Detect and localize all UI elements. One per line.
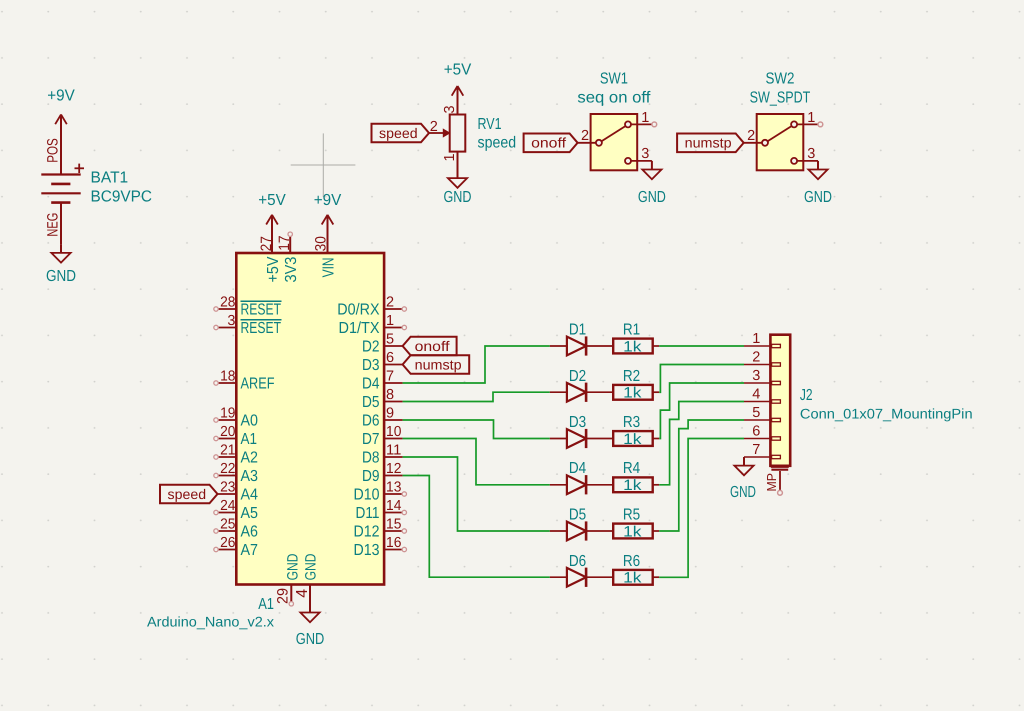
- svg-text:3: 3: [641, 146, 649, 162]
- svg-text:R1: R1: [623, 322, 640, 339]
- svg-text:D3: D3: [569, 414, 586, 431]
- svg-text:D5: D5: [362, 394, 380, 411]
- svg-text:Conn_01x07_MountingPin: Conn_01x07_MountingPin: [800, 405, 973, 421]
- wire Arduino D8 to diode D5: [403, 457, 550, 531]
- svg-text:1: 1: [386, 313, 394, 329]
- svg-text:30: 30: [313, 236, 330, 251]
- svg-text:SW1: SW1: [600, 71, 628, 88]
- svg-text:6: 6: [752, 424, 760, 440]
- svg-text:7: 7: [386, 369, 394, 385]
- pin 14 D11 (right): [356, 498, 407, 522]
- ground symbol (SW2 pin 3): [804, 161, 832, 206]
- pin 6 D3 (right): [362, 350, 403, 374]
- svg-text:D6: D6: [569, 553, 586, 570]
- svg-text:D1/TX: D1/TX: [339, 320, 380, 337]
- svg-text:NEG: NEG: [45, 213, 62, 237]
- battery BAT1: [41, 115, 152, 245]
- svg-text:12: 12: [386, 461, 401, 477]
- svg-text:R2: R2: [623, 368, 640, 385]
- svg-text:+9V: +9V: [314, 192, 342, 209]
- node crosshair marker: [291, 133, 356, 197]
- svg-text:D9: D9: [362, 468, 380, 485]
- svg-text:RV1: RV1: [478, 116, 502, 133]
- wire diode D2 to resistor R2: [586, 391, 613, 393]
- svg-text:RESET: RESET: [241, 302, 282, 319]
- pin 16 D13 (right): [354, 535, 407, 559]
- svg-text:22: 22: [220, 461, 235, 477]
- global label numstp (Arduino D3): [403, 355, 470, 374]
- svg-text:18: 18: [220, 369, 235, 385]
- diode D3: [550, 414, 586, 448]
- pin 11 D8 (right): [362, 443, 403, 467]
- svg-text:3: 3: [442, 105, 458, 113]
- svg-text:+5V: +5V: [265, 256, 282, 282]
- pin 7 D4 (right): [362, 369, 403, 393]
- svg-text:D7: D7: [362, 431, 380, 448]
- unconnected pin end (SW2 pin 1): [818, 122, 823, 127]
- pin 22 A3 (left): [214, 461, 258, 485]
- wire diode D5 to resistor R5: [586, 530, 613, 532]
- wire Arduino D5 to diode D2: [403, 392, 550, 401]
- svg-text:D10: D10: [354, 487, 380, 504]
- svg-text:D5: D5: [569, 507, 586, 524]
- svg-text:R6: R6: [623, 553, 640, 570]
- svg-text:MP: MP: [764, 473, 779, 492]
- unconnected pin end (SW1 pin 1): [652, 122, 657, 127]
- wire R4 to J2 pin 4: [659, 402, 744, 485]
- svg-text:RESET: RESET: [241, 320, 282, 337]
- svg-text:D4: D4: [569, 460, 586, 477]
- svg-text:5: 5: [752, 405, 760, 421]
- svg-text:A2: A2: [241, 450, 259, 467]
- pin 30 VIN (top): [313, 215, 338, 278]
- wire Arduino D6 to diode D3: [403, 420, 550, 439]
- power symbol +5V (RV1): [444, 62, 472, 96]
- pin 23 A4 (left): [218, 480, 259, 504]
- resistor R6 (1k): [613, 553, 659, 587]
- svg-text:A7: A7: [241, 542, 259, 559]
- svg-text:numstp: numstp: [415, 356, 462, 372]
- svg-text:1: 1: [752, 331, 760, 347]
- pin 25 A6 (left): [214, 517, 258, 541]
- svg-text:POS: POS: [45, 138, 62, 163]
- switch SW2 (SW_SPDT): [744, 71, 818, 171]
- resistor R3 (1k): [613, 414, 659, 448]
- svg-text:A6: A6: [241, 524, 259, 541]
- svg-text:3: 3: [807, 146, 815, 162]
- svg-text:speed: speed: [168, 486, 207, 502]
- wire R5 to J2 pin 5: [659, 420, 744, 531]
- svg-text:1k: 1k: [623, 477, 642, 494]
- svg-text:8: 8: [386, 387, 394, 403]
- pin 1 D1/TX (right): [339, 313, 407, 337]
- pin 29 GND (bottom, unconnected): [274, 553, 301, 606]
- ground symbol (RV1): [444, 170, 472, 207]
- wire Arduino D9 to diode D6: [403, 476, 550, 578]
- svg-text:3: 3: [227, 313, 235, 329]
- svg-text:GND: GND: [804, 189, 832, 206]
- ground symbol (Arduino pin 4): [296, 604, 325, 648]
- svg-text:1k: 1k: [623, 431, 642, 448]
- pin 9 D6 (right): [362, 406, 403, 430]
- svg-text:GND: GND: [444, 189, 472, 206]
- svg-text:29: 29: [274, 588, 291, 604]
- J2 mounting pin MP: [764, 467, 789, 495]
- svg-text:1k: 1k: [623, 385, 642, 402]
- svg-text:A0: A0: [241, 413, 259, 430]
- resistor R5 (1k): [613, 507, 659, 541]
- svg-text:BC9VPC: BC9VPC: [91, 189, 153, 206]
- wire Arduino D4 to diode D1: [403, 346, 550, 383]
- IC A1 Arduino_Nano_v2.x (body): [147, 253, 384, 630]
- power symbol +9V (battery): [47, 88, 75, 125]
- svg-text:24: 24: [220, 498, 235, 514]
- svg-text:4: 4: [752, 387, 760, 403]
- svg-text:21: 21: [220, 443, 235, 459]
- svg-text:speed: speed: [478, 135, 517, 152]
- diode D5: [550, 507, 586, 541]
- svg-text:numstp: numstp: [685, 135, 732, 151]
- svg-text:GND: GND: [46, 268, 76, 285]
- ground symbol (J2 pin 7): [730, 457, 756, 501]
- J2 pin 1: [744, 331, 780, 348]
- pin 4 GND (bottom): [294, 553, 320, 610]
- global label speed (Arduino A4): [160, 485, 218, 504]
- J2 pin 4: [744, 387, 780, 404]
- svg-text:3: 3: [752, 368, 760, 384]
- svg-text:D4: D4: [362, 376, 380, 393]
- wire R6 to J2 pin 6: [659, 439, 744, 578]
- svg-text:R4: R4: [623, 460, 640, 477]
- svg-text:D2: D2: [569, 368, 586, 385]
- pin 8 D5 (right): [362, 387, 403, 411]
- svg-text:GND: GND: [730, 484, 756, 501]
- svg-text:D1: D1: [569, 322, 586, 339]
- svg-text:11: 11: [386, 443, 401, 459]
- svg-text:10: 10: [386, 424, 401, 440]
- pin 10 D7 (right): [362, 424, 403, 448]
- svg-text:SW2: SW2: [766, 71, 795, 88]
- wire Arduino D7 to diode D4: [403, 439, 550, 485]
- svg-text:25: 25: [220, 517, 235, 533]
- svg-text:R3: R3: [623, 414, 640, 431]
- wire R3 to J2 pin 3: [659, 383, 744, 439]
- svg-text:1k: 1k: [623, 570, 642, 587]
- J2 pin 7: [744, 442, 780, 459]
- J2 pin 2: [744, 350, 780, 367]
- svg-text:1k: 1k: [623, 523, 642, 540]
- pin 21 A2 (left): [214, 443, 258, 467]
- svg-text:19: 19: [220, 406, 235, 422]
- power symbol +9V (Arduino): [314, 192, 342, 225]
- svg-text:7: 7: [752, 442, 760, 458]
- svg-text:6: 6: [386, 350, 394, 366]
- svg-text:27: 27: [258, 236, 275, 251]
- pin 27 +5V (top): [258, 215, 282, 283]
- pin 19 A0 (left): [214, 406, 258, 430]
- svg-text:26: 26: [220, 535, 235, 551]
- svg-text:+5V: +5V: [444, 62, 472, 79]
- svg-text:D13: D13: [354, 542, 380, 559]
- power symbol +5V (Arduino): [258, 192, 286, 225]
- svg-text:15: 15: [386, 517, 401, 533]
- svg-text:28: 28: [220, 295, 235, 311]
- J2 pin 3: [744, 368, 780, 385]
- svg-text:1: 1: [641, 110, 649, 126]
- svg-text:20: 20: [220, 424, 235, 440]
- svg-text:D11: D11: [356, 505, 380, 522]
- svg-text:A4: A4: [241, 487, 259, 504]
- svg-text:R5: R5: [623, 507, 640, 524]
- svg-text:A1: A1: [258, 596, 274, 613]
- ground symbol (battery): [46, 244, 76, 285]
- global label speed (RV1 wiper): [372, 124, 430, 143]
- svg-text:GND: GND: [284, 553, 301, 580]
- wire diode D6 to resistor R6: [586, 576, 613, 578]
- svg-text:GND: GND: [296, 631, 325, 648]
- svg-text:VIN: VIN: [320, 257, 337, 277]
- pin 26 A7 (left): [214, 535, 258, 559]
- diode D4: [550, 460, 586, 494]
- svg-text:D6: D6: [362, 413, 380, 430]
- pin 18 AREF (left): [214, 369, 275, 393]
- svg-text:GND: GND: [303, 553, 320, 580]
- svg-text:A3: A3: [241, 468, 259, 485]
- svg-text:A5: A5: [241, 505, 259, 522]
- diode D2: [550, 368, 586, 402]
- svg-text:14: 14: [386, 498, 401, 514]
- svg-text:SW_SPDT: SW_SPDT: [750, 90, 811, 107]
- svg-text:2: 2: [747, 128, 755, 144]
- resistor R1 (1k): [613, 322, 659, 356]
- svg-text:seq on off: seq on off: [577, 90, 651, 107]
- pin 20 A1 (left): [214, 424, 257, 448]
- svg-text:1k: 1k: [623, 338, 642, 355]
- pin 24 A5 (left): [214, 498, 258, 522]
- svg-text:16: 16: [386, 535, 401, 551]
- J2 pin 5: [744, 405, 780, 422]
- pin 28 RESET (left): [214, 295, 282, 319]
- svg-text:J2: J2: [800, 387, 813, 404]
- resistor R2 (1k): [613, 368, 659, 402]
- svg-text:onoff: onoff: [531, 135, 566, 151]
- global label numstp (SW2 pin 2): [677, 134, 744, 153]
- svg-text:23: 23: [220, 480, 235, 496]
- resistor R4 (1k): [613, 460, 659, 494]
- pin 17 3V3 (top, unconnected): [276, 232, 300, 283]
- wire diode D4 to resistor R4: [586, 484, 613, 486]
- global label onoff (Arduino D2): [403, 337, 457, 356]
- svg-text:onoff: onoff: [415, 338, 450, 354]
- svg-text:2: 2: [581, 128, 589, 144]
- wire diode D3 to resistor R3: [586, 438, 613, 440]
- svg-text:4: 4: [294, 589, 311, 598]
- ground symbol (SW1 pin 3): [638, 161, 666, 206]
- svg-text:3V3: 3V3: [283, 257, 300, 283]
- svg-text:D3: D3: [362, 357, 380, 374]
- pin 5 D2 (right): [362, 332, 403, 356]
- svg-text:5: 5: [386, 332, 394, 348]
- svg-text:1: 1: [807, 110, 815, 126]
- wire R1 to J2 pin 1: [659, 345, 744, 347]
- pin 3 RESET (left): [214, 313, 282, 337]
- svg-text:AREF: AREF: [241, 376, 275, 393]
- wire R2 to J2 pin 2: [659, 365, 744, 393]
- pin 13 D10 (right): [354, 480, 407, 504]
- diode D6: [550, 553, 586, 587]
- J2 pin 6: [744, 424, 780, 441]
- svg-text:2: 2: [386, 295, 394, 311]
- global label onoff (SW1 pin 2): [524, 134, 578, 153]
- svg-text:BAT1: BAT1: [91, 170, 129, 187]
- svg-text:1: 1: [442, 153, 458, 161]
- diode D1: [550, 322, 586, 356]
- svg-text:2: 2: [752, 350, 760, 366]
- svg-text:9: 9: [386, 406, 394, 422]
- svg-text:speed: speed: [379, 125, 418, 141]
- svg-text:+5V: +5V: [258, 192, 286, 209]
- switch SW1 (seq on off): [577, 71, 652, 171]
- pin 2 D0/RX (right): [337, 295, 406, 319]
- svg-text:+9V: +9V: [47, 88, 75, 105]
- potentiometer RV1: [429, 86, 516, 170]
- svg-text:17: 17: [276, 236, 293, 251]
- svg-text:D12: D12: [354, 524, 380, 541]
- connector J2 Conn_01x07_MountingPin (body): [770, 335, 972, 466]
- svg-text:D2: D2: [362, 339, 380, 356]
- svg-text:Arduino_Nano_v2.x: Arduino_Nano_v2.x: [147, 614, 274, 630]
- svg-text:D0/RX: D0/RX: [337, 302, 379, 319]
- pin 15 D12 (right): [354, 517, 407, 541]
- svg-text:2: 2: [430, 119, 438, 135]
- svg-text:13: 13: [386, 480, 401, 496]
- wire diode D1 to resistor R1: [586, 345, 613, 347]
- svg-text:A1: A1: [241, 431, 258, 448]
- pin 12 D9 (right): [362, 461, 403, 485]
- svg-text:GND: GND: [638, 189, 666, 206]
- svg-text:D8: D8: [362, 450, 380, 467]
